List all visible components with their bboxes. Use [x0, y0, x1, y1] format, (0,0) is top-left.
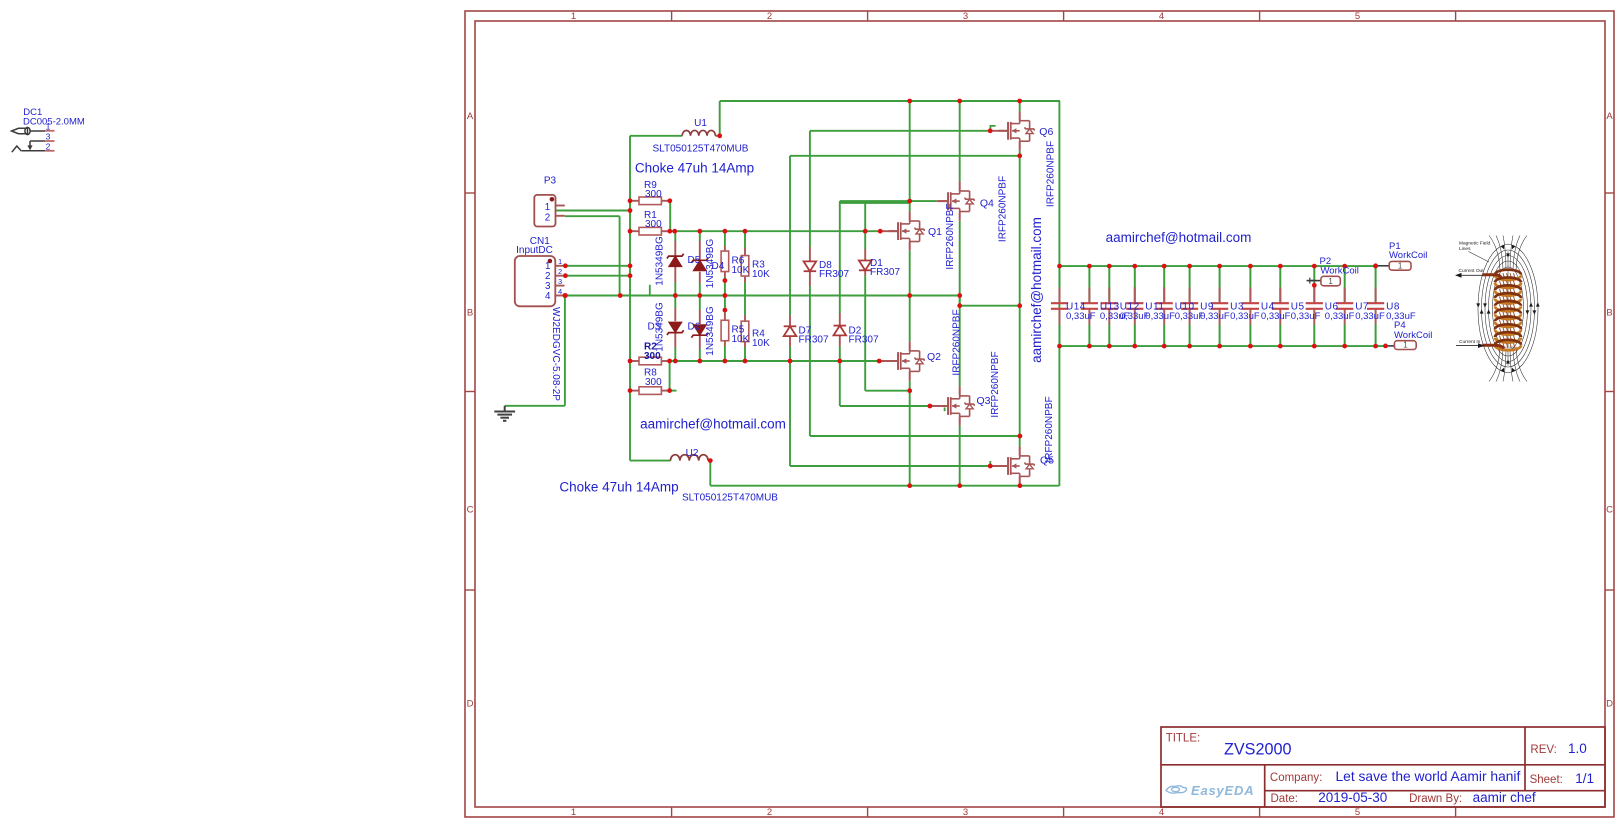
svg-text:5: 5: [1355, 11, 1360, 22]
svg-text:Date:: Date:: [1271, 793, 1299, 805]
svg-text:10K: 10K: [752, 338, 770, 349]
svg-text:0,33uF: 0,33uF: [1261, 311, 1291, 322]
svg-text:2: 2: [767, 11, 772, 22]
svg-text:D6: D6: [688, 322, 701, 333]
svg-text:Lines: Lines: [1459, 246, 1471, 252]
svg-text:0,33uF: 0,33uF: [1145, 311, 1175, 322]
svg-text:aamirchef@hotmail.com: aamirchef@hotmail.com: [1106, 230, 1252, 245]
svg-text:1: 1: [571, 11, 576, 22]
svg-text:Company:: Company:: [1270, 772, 1322, 784]
svg-text:FR307: FR307: [799, 334, 829, 345]
svg-text:IRFP260NPBF: IRFP260NPBF: [1045, 141, 1056, 207]
svg-text:FR307: FR307: [870, 267, 900, 278]
svg-text:1: 1: [1403, 341, 1408, 350]
svg-text:Q6: Q6: [1039, 126, 1053, 138]
svg-text:WorkCoil: WorkCoil: [1389, 250, 1427, 261]
svg-text:1N5349BG: 1N5349BG: [705, 306, 716, 356]
svg-text:SLT050125T470MUB: SLT050125T470MUB: [682, 493, 778, 504]
svg-text:U2: U2: [686, 448, 699, 459]
svg-text:IRFP260NPBF: IRFP260NPBF: [945, 203, 956, 269]
svg-text:0,33uF: 0,33uF: [1066, 311, 1096, 322]
svg-text:1: 1: [1328, 277, 1333, 286]
svg-text:ZVS2000: ZVS2000: [1224, 741, 1292, 759]
svg-text:1N5349BG: 1N5349BG: [655, 302, 666, 352]
svg-text:1N5349BG: 1N5349BG: [655, 236, 666, 286]
svg-text:A: A: [467, 111, 474, 122]
svg-text:Current Out: Current Out: [1459, 268, 1485, 274]
svg-text:Current In: Current In: [1459, 339, 1481, 345]
svg-text:10K: 10K: [732, 334, 750, 345]
svg-text:Choke 47uh 14Amp: Choke 47uh 14Amp: [559, 480, 678, 495]
svg-text:P3: P3: [544, 176, 557, 187]
svg-text:300: 300: [645, 377, 662, 388]
svg-text:Magnetic Field: Magnetic Field: [1459, 241, 1491, 247]
svg-text:4: 4: [1159, 11, 1164, 22]
svg-text:D: D: [1606, 699, 1613, 710]
svg-text:REV:: REV:: [1530, 744, 1556, 756]
svg-text:TITLE:: TITLE:: [1166, 733, 1201, 745]
svg-text:3: 3: [558, 277, 562, 286]
svg-text:aamir chef: aamir chef: [1473, 790, 1536, 805]
svg-text:SLT050125T470MUB: SLT050125T470MUB: [653, 144, 749, 155]
svg-text:1/1: 1/1: [1575, 771, 1594, 786]
svg-text:2: 2: [545, 213, 550, 224]
svg-text:U1: U1: [694, 118, 707, 129]
svg-text:Q2: Q2: [927, 351, 941, 363]
svg-text:2: 2: [46, 141, 51, 151]
svg-text:10K: 10K: [732, 265, 750, 276]
svg-text:1N5349BG: 1N5349BG: [705, 239, 716, 289]
svg-text:D: D: [467, 699, 474, 710]
svg-text:1: 1: [46, 121, 51, 131]
svg-text:DC005-2.0MM: DC005-2.0MM: [23, 117, 85, 128]
svg-text:IRFP260NPBF: IRFP260NPBF: [990, 351, 1001, 417]
svg-text:0,33uF: 0,33uF: [1200, 311, 1230, 322]
svg-text:Q1: Q1: [928, 226, 942, 238]
svg-text:Q3: Q3: [977, 395, 991, 407]
svg-text:4: 4: [558, 287, 562, 296]
svg-text:300: 300: [645, 219, 662, 230]
svg-text:C: C: [467, 505, 474, 516]
svg-text:Drawn By:: Drawn By:: [1409, 793, 1462, 805]
svg-text:300: 300: [645, 189, 662, 200]
svg-text:IRFP260NPBF: IRFP260NPBF: [1044, 396, 1055, 462]
svg-text:0,33uF: 0,33uF: [1291, 311, 1321, 322]
svg-text:1: 1: [558, 257, 562, 266]
svg-text:aamirchef@hotmail.com: aamirchef@hotmail.com: [640, 417, 786, 432]
svg-text:1: 1: [1398, 261, 1403, 270]
svg-text:3: 3: [46, 132, 51, 142]
svg-text:EasyEDA: EasyEDA: [1191, 783, 1254, 798]
svg-text:4: 4: [1159, 807, 1164, 818]
svg-text:1: 1: [545, 202, 550, 213]
svg-text:aamirchef@hotmail.com: aamirchef@hotmail.com: [1029, 217, 1044, 363]
svg-text:Choke 47uh 14Amp: Choke 47uh 14Amp: [635, 161, 754, 176]
svg-text:FR307: FR307: [819, 269, 849, 280]
svg-text:0,33uF: 0,33uF: [1230, 311, 1260, 322]
svg-text:C: C: [1606, 505, 1613, 516]
svg-text:IRFP260NPBF: IRFP260NPBF: [997, 176, 1008, 242]
svg-text:Q4: Q4: [980, 198, 994, 210]
svg-text:5: 5: [1355, 807, 1360, 818]
svg-text:Let save the world Aamir hanif: Let save the world Aamir hanif: [1336, 769, 1521, 784]
svg-text:InputDC: InputDC: [516, 245, 553, 256]
svg-text:4: 4: [545, 291, 551, 302]
svg-text:2: 2: [767, 807, 772, 818]
svg-text:D5: D5: [688, 255, 701, 266]
svg-text:WJ2EDGVC-5.08-2P: WJ2EDGVC-5.08-2P: [550, 307, 561, 401]
svg-text:2019-05-30: 2019-05-30: [1318, 790, 1387, 805]
svg-text:3: 3: [963, 807, 968, 818]
svg-text:Sheet:: Sheet:: [1530, 774, 1563, 786]
svg-text:0,33uF: 0,33uF: [1325, 311, 1355, 322]
svg-text:FR307: FR307: [849, 334, 879, 345]
svg-text:1: 1: [571, 807, 576, 818]
svg-text:0,33uF: 0,33uF: [1355, 311, 1385, 322]
svg-text:WorkCoil: WorkCoil: [1321, 266, 1359, 277]
svg-text:3: 3: [963, 11, 968, 22]
svg-text:2: 2: [558, 267, 562, 276]
svg-text:IRFP260NPBF: IRFP260NPBF: [952, 309, 963, 375]
svg-text:WorkCoil: WorkCoil: [1394, 330, 1432, 341]
svg-text:1.0: 1.0: [1568, 741, 1587, 756]
svg-text:B: B: [1606, 308, 1612, 319]
svg-text:A: A: [1606, 111, 1613, 122]
svg-text:B: B: [467, 308, 473, 319]
svg-text:10K: 10K: [752, 269, 770, 280]
